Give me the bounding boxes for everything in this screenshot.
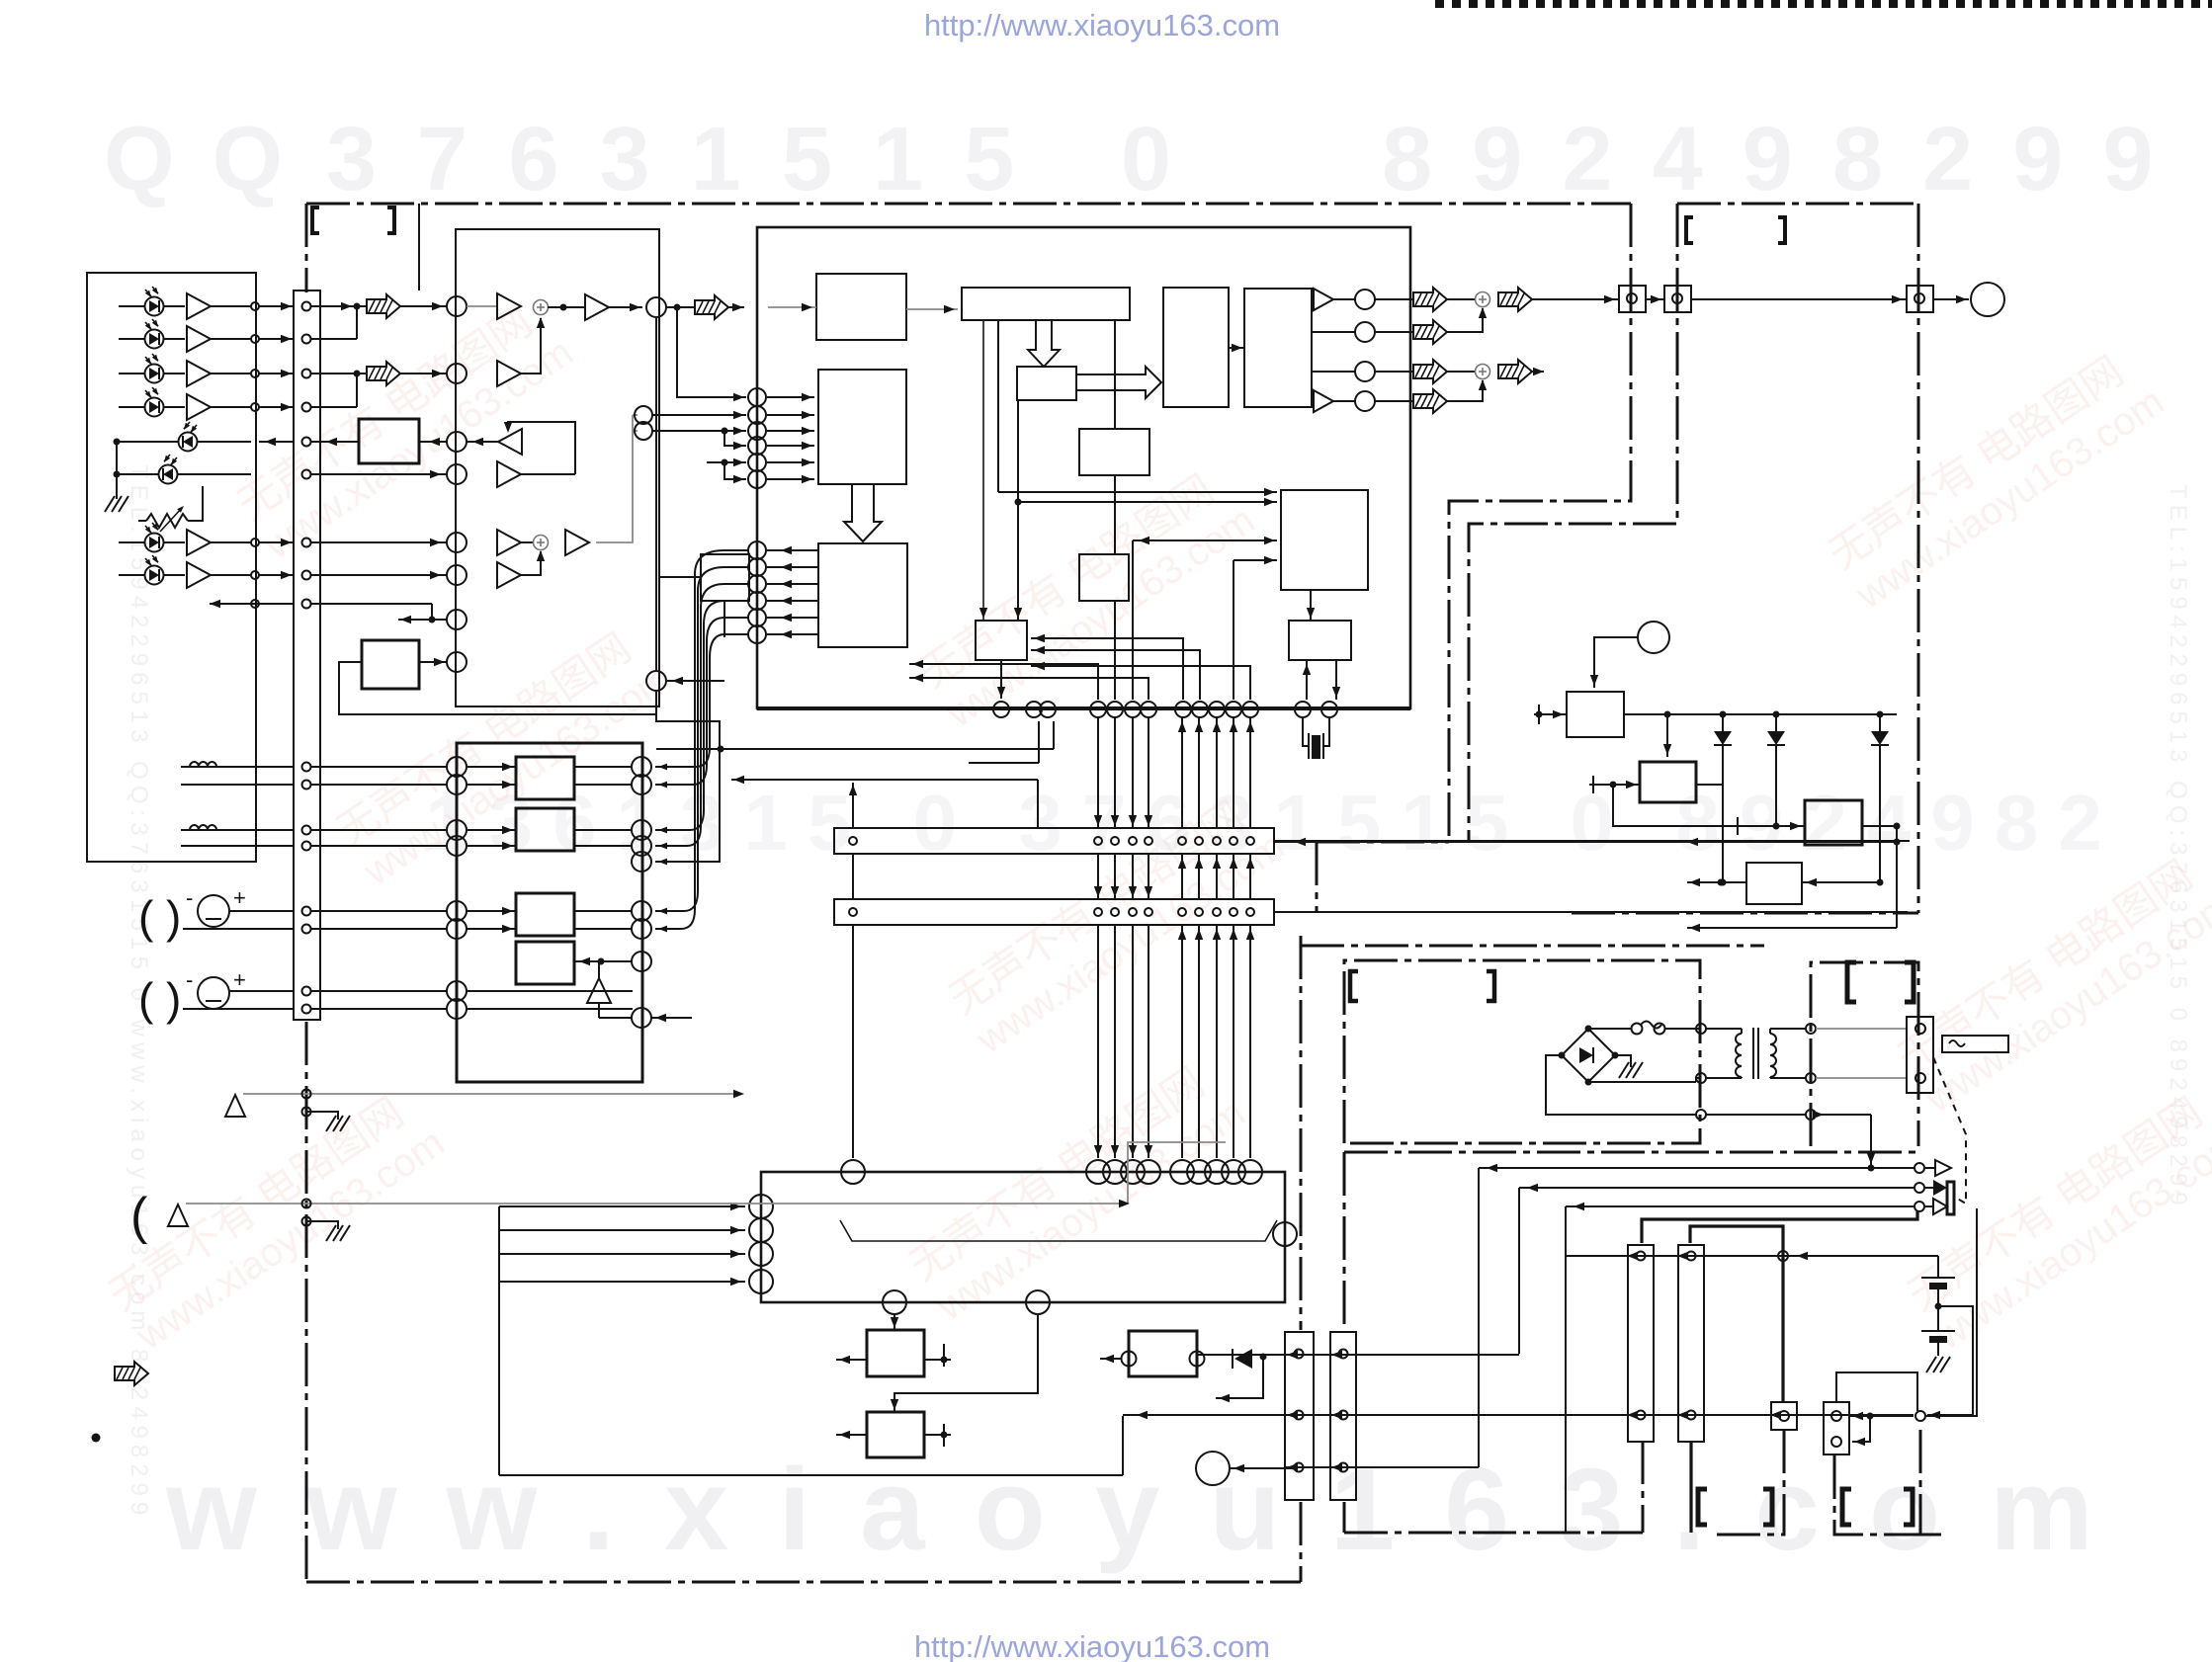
border SW section top: [1344, 1151, 1918, 1154]
amp row310 1: [497, 293, 521, 319]
node driver out: [632, 852, 651, 872]
pin CN2A: [1111, 837, 1119, 845]
buffer A7: [187, 530, 211, 555]
wire long bottom: [499, 1474, 1123, 1476]
border CD section bottom: [1572, 912, 1918, 915]
wire D11: [1722, 714, 1724, 731]
pin CN2A: [1145, 837, 1152, 845]
node DSP in 5: [748, 454, 766, 471]
wire bus column: [1181, 717, 1183, 828]
inductor L2: [181, 829, 294, 831]
wire row412: [310, 406, 357, 408]
wire M1 feed: [893, 1314, 895, 1330]
wire D6 row: [178, 473, 251, 475]
wire driver out stub: [574, 910, 632, 912]
pin pickup 9: [251, 600, 259, 608]
wire PD3 input: [119, 373, 144, 374]
svg-text:(: (: [138, 973, 154, 1025]
wire row378 c: [521, 318, 541, 374]
wire CN1 to driver: [310, 829, 447, 831]
border AC section: [1811, 962, 1918, 1146]
wire S7 out 4: [767, 600, 818, 602]
wire row310 f: [728, 306, 744, 308]
reg box R2: [1640, 762, 1696, 802]
wire driver in stub: [467, 910, 516, 912]
wire to CN1 row1: [259, 305, 294, 307]
wire S10 xtal a: [1306, 660, 1308, 700]
wire out row2: [1375, 331, 1413, 333]
pin line2 a: [302, 1200, 311, 1208]
pin pickup 7: [251, 539, 259, 546]
eq box S9: [1079, 429, 1149, 475]
wire gray into S1: [768, 306, 816, 308]
border AMP section: [1344, 960, 1700, 1143]
ground line2: [326, 1225, 336, 1241]
amp row582: [497, 562, 521, 588]
pin CN2B: [1195, 908, 1203, 916]
wire DSP in 3: [767, 430, 814, 432]
wire D12: [1775, 714, 1777, 731]
pin CN2A: [1094, 837, 1102, 845]
wire R1 in: [1534, 713, 1567, 715]
motor box M2: [867, 1412, 924, 1457]
wire out row1 c: [1532, 298, 1619, 300]
wire row582 a: [310, 574, 447, 576]
connector CN3A: [1285, 1332, 1314, 1500]
node bus: [1226, 702, 1241, 717]
wire sw row3: [1285, 1466, 1479, 1468]
DSP bottom bus: [757, 706, 1410, 710]
wire DSP in 5: [767, 461, 814, 463]
wire DSP in 6: [767, 478, 814, 480]
wire spk1: [1479, 1167, 1914, 1169]
wire bus right b: [1274, 911, 1572, 913]
wire row480 b: [521, 473, 575, 475]
wire PD4 input: [119, 406, 144, 408]
wire spk3: [1566, 1205, 1914, 1207]
driver stage box: [516, 942, 574, 984]
wire to motor node: [1231, 1467, 1297, 1469]
hatched arrow out2: [1413, 320, 1447, 344]
decorative pink watermark 9: [1889, 842, 2212, 1122]
wire feed c1: [677, 307, 746, 397]
wire out r4: [1333, 400, 1355, 402]
svg-text:QQ: QQ: [104, 109, 320, 209]
wire S7 fan 2: [655, 567, 748, 911]
wire row310 c: [548, 306, 586, 308]
node terminal: [447, 652, 467, 672]
node DSP out: [1355, 362, 1375, 381]
pin pickup 4: [251, 403, 259, 411]
node driver out: [632, 836, 651, 856]
decorative pink watermark 1: [228, 289, 580, 568]
svg-text:(: (: [130, 1188, 148, 1245]
wire S6 stub: [659, 576, 701, 578]
wire S7 fan 4: [655, 601, 748, 830]
wire LED gnd stub: [116, 442, 118, 499]
node driver in: [447, 820, 467, 840]
pin CN2B: [1111, 908, 1119, 916]
wire row480 a: [310, 473, 447, 475]
border step down: [1317, 841, 1449, 844]
buffer out R: [1314, 390, 1333, 412]
node bus: [1209, 702, 1225, 717]
jack bar: [1947, 1182, 1954, 1214]
node bus: [1040, 702, 1056, 717]
block arrow S2 down: [1028, 320, 1060, 367]
node bus: [1141, 702, 1156, 717]
node terminal: [447, 296, 467, 316]
sync box S2: [962, 288, 1130, 320]
decorative pink watermark 8: [100, 1079, 452, 1359]
speaker tri 2: [1925, 1187, 1933, 1189]
wire out row3 a: [1375, 371, 1413, 373]
sum row310: [534, 300, 549, 315]
pin line1 b: [302, 1108, 311, 1117]
wire DSP in 4: [767, 445, 814, 447]
border SW section bottom: [1344, 1532, 1643, 1535]
pin CN2A: [1195, 837, 1203, 845]
wire driver out stub: [574, 829, 632, 831]
node driver out: [632, 757, 651, 777]
wire gray S1 to S2: [906, 308, 958, 310]
label brackets AC: [1847, 962, 1856, 1002]
node bus: [1242, 702, 1258, 717]
node bus: [1107, 702, 1123, 717]
reg box R3: [1805, 800, 1862, 845]
battery G2: [198, 977, 229, 1009]
wire row343: [310, 338, 357, 340]
wire D5 left: [117, 441, 178, 443]
pin AC edge c: [1806, 1110, 1816, 1120]
pin PS edge c: [1696, 1110, 1706, 1120]
wire S7 out 5: [767, 617, 818, 619]
wire row549 b: [521, 541, 534, 543]
wire row447 a: [419, 441, 447, 443]
wire line2 gnd: [306, 1221, 338, 1229]
wire mech feed: [499, 1281, 745, 1283]
wire S7 out 3: [767, 583, 818, 585]
wire D5 row: [198, 441, 251, 443]
node bus: [1090, 702, 1106, 717]
wire line2 gray: [186, 1203, 1128, 1205]
buffer A4: [187, 394, 211, 420]
buffer up tri: [587, 978, 611, 1003]
wire out row4: [1375, 400, 1413, 402]
mech chamfer: [840, 1220, 1277, 1241]
wire PD7 input: [119, 541, 144, 543]
amp row378: [497, 361, 521, 386]
wire out row4 b: [1447, 380, 1483, 401]
wire sw row1: [1197, 1354, 1519, 1356]
wire S7 fan 6: [655, 634, 748, 767]
block arrow S3 right: [1076, 367, 1161, 398]
wire cap mid: [1937, 1289, 1939, 1330]
pin CN2B: [1094, 908, 1102, 916]
wire S11 row3: [1234, 559, 1277, 561]
pin pickup 2: [251, 335, 259, 343]
wire M2 left: [836, 1434, 867, 1436]
label brackets AMP: [1350, 971, 1358, 1001]
wire b4 out: [574, 960, 632, 962]
pin CN1: [302, 925, 311, 934]
hatched arrow out1: [1413, 288, 1447, 311]
border MAIN bottom: [306, 1581, 1301, 1584]
wire row627: [398, 619, 447, 621]
wire S7 out 2: [767, 566, 818, 568]
node driver in: [447, 757, 467, 777]
node row310 right: [646, 297, 666, 317]
label brackets HP: [1686, 217, 1693, 243]
pin spk2: [1914, 1183, 1924, 1193]
pin CN2A: [1230, 837, 1237, 845]
wire P5 top loop: [1836, 1372, 1917, 1411]
wire PS return: [1706, 1114, 1806, 1116]
wire CN1 to driver: [310, 1008, 447, 1010]
node driver in: [447, 775, 467, 794]
wire row670: [419, 661, 447, 663]
wire CN1 to driver: [310, 845, 447, 847]
sum row549: [534, 536, 549, 550]
pin pickup 1: [251, 302, 259, 310]
wire out row3 b: [1447, 371, 1475, 373]
node row689: [646, 671, 666, 691]
wire return row 611: [251, 603, 294, 605]
diode D13: [1871, 731, 1889, 745]
cap C1: [1937, 1256, 1939, 1277]
border SW section left: [1343, 1152, 1346, 1328]
node gray b: [635, 422, 652, 440]
wire sw row2: [1123, 1414, 1914, 1416]
pin CN1: [302, 842, 311, 851]
wire S7 fb1: [909, 664, 1098, 700]
speaker tri 3: [1925, 1205, 1933, 1207]
node S7 out 2: [748, 558, 766, 576]
wire S7 out 1: [767, 549, 818, 551]
wire S11 bidir: [1133, 540, 1277, 541]
wire P2-P3: [1691, 298, 1907, 300]
decorative pink watermark 7: [1899, 1079, 2212, 1359]
wire sw row1 branch: [1216, 1357, 1263, 1398]
wire VR1 wiring: [138, 520, 146, 522]
wire bus column: [1198, 717, 1200, 828]
wire SW1 left: [1100, 1358, 1121, 1360]
pin CN1: [302, 781, 311, 789]
wire line1 gnd: [306, 1112, 338, 1120]
wire buffer A2 out: [211, 338, 251, 340]
wire S4-S5: [1229, 347, 1244, 349]
wire edge up: [1926, 1208, 1977, 1416]
wire D6 left: [117, 473, 158, 475]
pin CN2A: [849, 837, 857, 845]
wire line1 gray: [243, 1093, 741, 1095]
node bus right: [655, 318, 657, 670]
wire R2 loop: [1613, 785, 1805, 826]
photodiode PD1: [145, 287, 164, 316]
wire S7 fan 1: [655, 550, 748, 929]
svg-text:www.xiaoyu163.com: www.xiaoyu163.com: [165, 1445, 2143, 1575]
wire PD1 input: [119, 305, 144, 307]
wire P5 chain: [1849, 1415, 1914, 1417]
svg-text:+: +: [233, 967, 246, 992]
pickup outer box: [87, 273, 256, 862]
border MAIN left upper: [305, 204, 308, 292]
wire G1 a: [229, 910, 294, 912]
wire tracking fb: [339, 662, 656, 714]
buffer A3: [187, 361, 211, 386]
wire R2 out: [1696, 784, 1723, 786]
buffer A2: [187, 326, 211, 352]
node terminal: [447, 364, 467, 383]
wire DSP in 1: [767, 396, 814, 398]
pin line1 a: [302, 1090, 311, 1099]
wire S8 fb2: [1031, 650, 1200, 700]
wire driver in stub: [467, 829, 516, 831]
driver box: [457, 743, 642, 1082]
pin PS edge a: [1696, 1024, 1706, 1034]
pin CN2B: [1213, 908, 1221, 916]
wire row582 b: [521, 551, 541, 575]
focus coil drive box: [359, 419, 419, 463]
svg-text:+: +: [233, 885, 246, 910]
svg-text:(: (: [138, 891, 154, 943]
wire row378 b: [400, 373, 447, 374]
motor node M3: [1196, 1452, 1230, 1485]
pin CN1: [302, 987, 311, 996]
pin CN2B: [1178, 908, 1186, 916]
svg-text:37631515 0: 37631515 0: [326, 109, 1212, 209]
wire rail852: [1274, 841, 1897, 843]
wire row549 a: [310, 541, 447, 543]
pin CN1: [302, 763, 311, 772]
ground line1: [326, 1116, 336, 1131]
wire out row1 b: [1447, 298, 1475, 300]
pin CN1: [302, 907, 311, 916]
buffer out L: [1314, 289, 1333, 310]
wire hp row: [1566, 1255, 1938, 1257]
wire hp thick a: [1642, 1211, 1917, 1243]
wire CN1 to driver: [310, 766, 447, 768]
connector CN2B: [834, 899, 1274, 925]
wire PD8 input: [119, 574, 144, 576]
wire PD8 to buffer: [164, 574, 185, 576]
node driver out: [632, 952, 651, 971]
wire bridge left: [1546, 1055, 1696, 1115]
node S7 out 4: [748, 592, 766, 610]
diode D21: [1234, 1349, 1252, 1369]
wire S5 r2: [1312, 331, 1355, 333]
border MAIN board top: [306, 203, 1631, 206]
wire driver in stub: [467, 928, 516, 930]
osc box S10: [1289, 621, 1351, 660]
node DSP in 3: [748, 422, 766, 440]
line2 head: [168, 1205, 188, 1226]
pin CN1: [302, 438, 311, 447]
node terminal: [447, 432, 467, 452]
amp row549: [497, 530, 521, 555]
node bus: [1321, 702, 1337, 717]
pin CN2B: [1246, 908, 1254, 916]
node driver in: [447, 999, 467, 1019]
node driver out: [632, 820, 651, 840]
node mech left: [749, 1218, 773, 1242]
ground caps: [1926, 1357, 1936, 1372]
wire feed c2: [652, 414, 746, 416]
wire spk2: [1519, 1187, 1914, 1189]
wire S5 r4a: [1312, 400, 1314, 402]
wire M1 left: [836, 1359, 867, 1361]
wire S9-S10: [1114, 475, 1116, 554]
wire PD4 to buffer: [164, 406, 185, 408]
cap C2: [1921, 1330, 1955, 1332]
wire driver thru: [467, 1008, 633, 1010]
wire mech feed: [499, 1253, 745, 1255]
pin PS edge b: [1696, 1073, 1706, 1083]
wire G1 b: [183, 928, 294, 930]
sum out3: [1476, 365, 1490, 379]
power node: [1638, 622, 1669, 653]
motor box M1: [867, 1330, 924, 1376]
node S7 out 1: [748, 541, 766, 559]
wire CN1 to driver: [310, 784, 447, 786]
node gray a: [635, 406, 652, 424]
node DSP in 4: [748, 437, 766, 455]
pin CN2B: [1129, 908, 1137, 916]
dac box S5: [1244, 289, 1312, 407]
node driver out: [632, 901, 651, 921]
wire hp thick b: [1690, 1226, 1783, 1402]
pin spk3: [1914, 1202, 1924, 1211]
border CD section step: [1469, 204, 1677, 842]
photodiode PD7: [145, 523, 164, 552]
svg-text:): ): [166, 891, 181, 943]
wire out row1 a: [1375, 298, 1413, 300]
wire bus column: [1114, 717, 1116, 828]
border CD section lower: [1316, 842, 1319, 913]
node driver in: [447, 836, 467, 856]
wire R2 feed: [1666, 714, 1668, 757]
svg-text:-: -: [186, 885, 193, 910]
servo box S7: [818, 543, 907, 647]
wire up tri: [598, 1003, 600, 1018]
pin CN2A: [1246, 837, 1254, 845]
node terminal: [447, 610, 467, 629]
wire AC a: [1816, 1028, 1907, 1030]
wire AC b: [1816, 1077, 1907, 1079]
wire rail923: [1274, 911, 1908, 913]
pin spk1: [1914, 1163, 1924, 1173]
DSP main box: [757, 227, 1410, 708]
border sub board 2: [1834, 1455, 1942, 1535]
mechanism box: [761, 1172, 1285, 1302]
label brackets sub1: [1698, 1489, 1707, 1525]
wire CN4B tail: [1689, 1442, 1692, 1533]
pin spk edge: [1915, 1411, 1925, 1421]
wire DSP in 2: [767, 414, 814, 416]
wire to CN1 r8: [259, 574, 294, 576]
wire S11-S10: [1310, 590, 1312, 621]
node DSP out: [1355, 290, 1375, 309]
wire G2 b: [183, 1008, 294, 1010]
block arrow S mid down: [844, 484, 882, 541]
wire L1 pair: [181, 784, 294, 786]
mute box S10b: [1079, 554, 1129, 601]
node mech right: [1273, 1222, 1297, 1246]
battery G1: [198, 895, 229, 927]
node mech top: [1121, 1160, 1145, 1184]
wire out r1: [1333, 298, 1355, 300]
wire out row3 c: [1532, 371, 1544, 373]
